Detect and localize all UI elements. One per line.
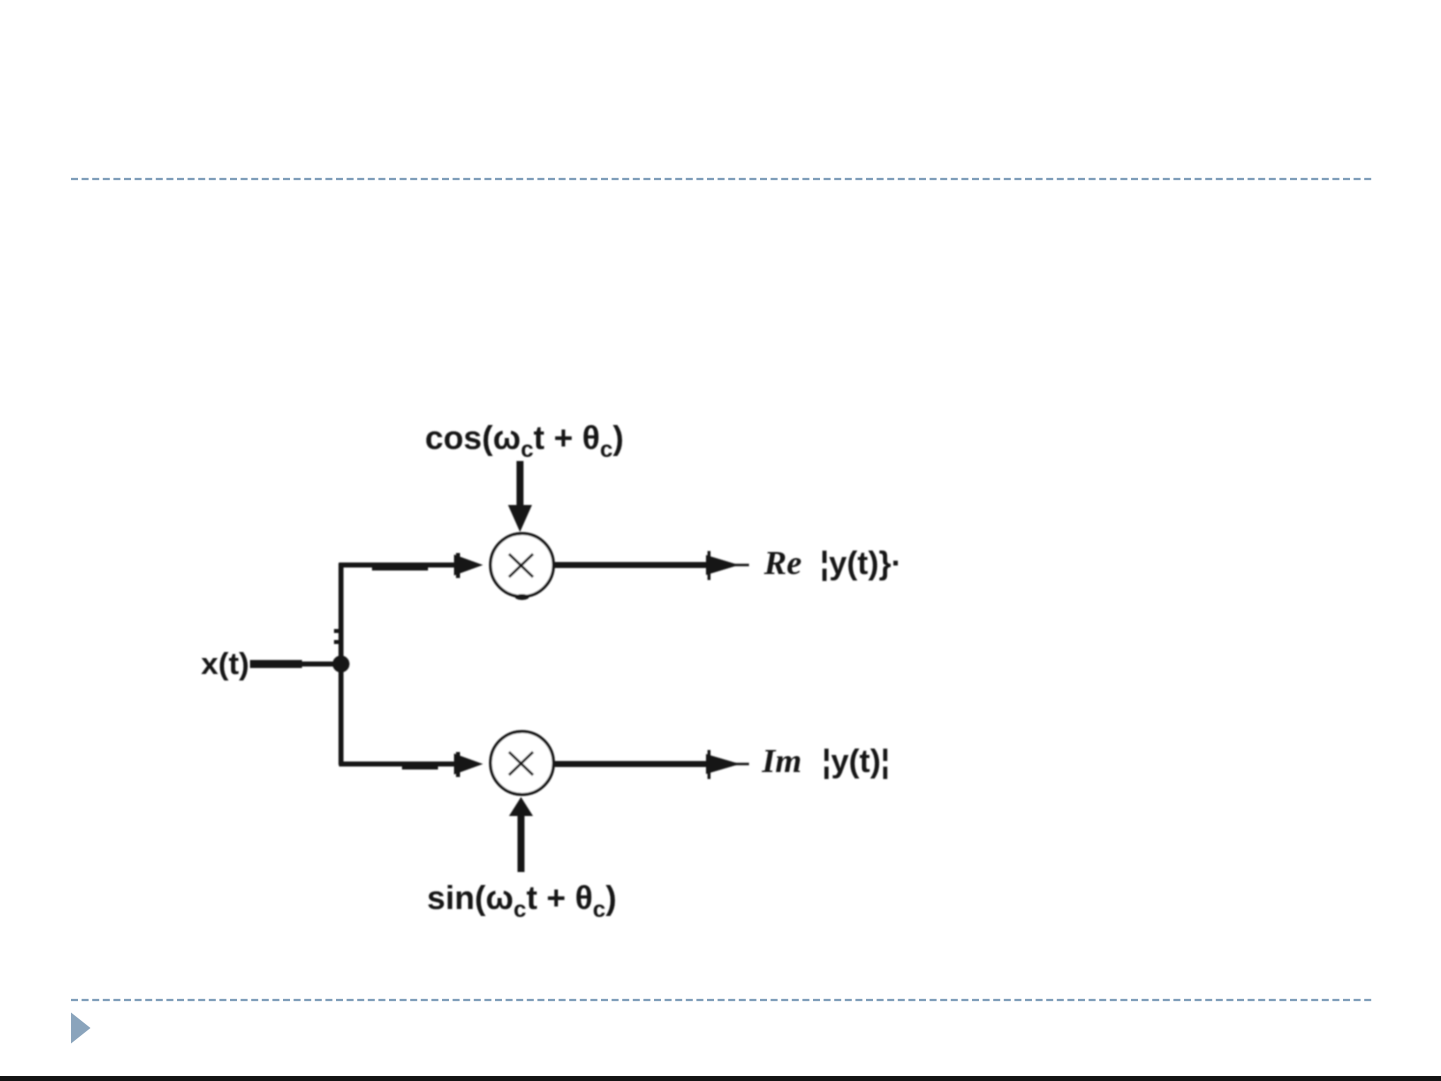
slide bottom divider (dashed) bbox=[71, 999, 1372, 1001]
multiplier M2 (bottom mixer) bbox=[491, 732, 554, 795]
label x(t) bbox=[201, 646, 249, 681]
svg-text:Re: Re bbox=[763, 545, 802, 582]
wire: input from x(t) to junction bbox=[250, 660, 340, 668]
wire: carrier arrow into top multiplier bbox=[508, 461, 532, 532]
label cos(wc t + theta c) bbox=[425, 419, 624, 462]
svg-text:x(t): x(t) bbox=[201, 646, 249, 681]
wire: top branch into multiplier M1 bbox=[339, 553, 483, 578]
slide top divider (dashed) bbox=[71, 178, 1372, 180]
wire: top output to Re{y(t)} bbox=[554, 551, 749, 580]
slide footer bar bbox=[0, 1076, 1441, 1081]
svg-text:¦y(t)}·: ¦y(t)}· bbox=[820, 545, 902, 581]
label Re{y(t)} bbox=[763, 545, 902, 582]
slide bullet triangle bbox=[71, 1013, 91, 1044]
label sin(wc t + theta c) bbox=[427, 879, 617, 922]
svg-text:¦y(t)¦: ¦y(t)¦ bbox=[822, 743, 890, 779]
svg-text:Im: Im bbox=[761, 743, 802, 780]
label Im{y(t)} bbox=[761, 743, 890, 780]
node: input junction bbox=[333, 656, 350, 673]
wire: vertical bus between branches bbox=[334, 563, 341, 765]
wire: bottom branch into multiplier M2 bbox=[339, 752, 483, 777]
svg-text:sin(ωct + θc): sin(ωct + θc) bbox=[427, 879, 617, 922]
svg-text:cos(ωct + θc): cos(ωct + θc) bbox=[425, 419, 624, 462]
wire: bottom output to Im{y(t)} bbox=[554, 750, 749, 779]
multiplier M1 (top mixer) bbox=[491, 534, 554, 601]
wire: carrier arrow into bottom multiplier bbox=[509, 797, 533, 872]
